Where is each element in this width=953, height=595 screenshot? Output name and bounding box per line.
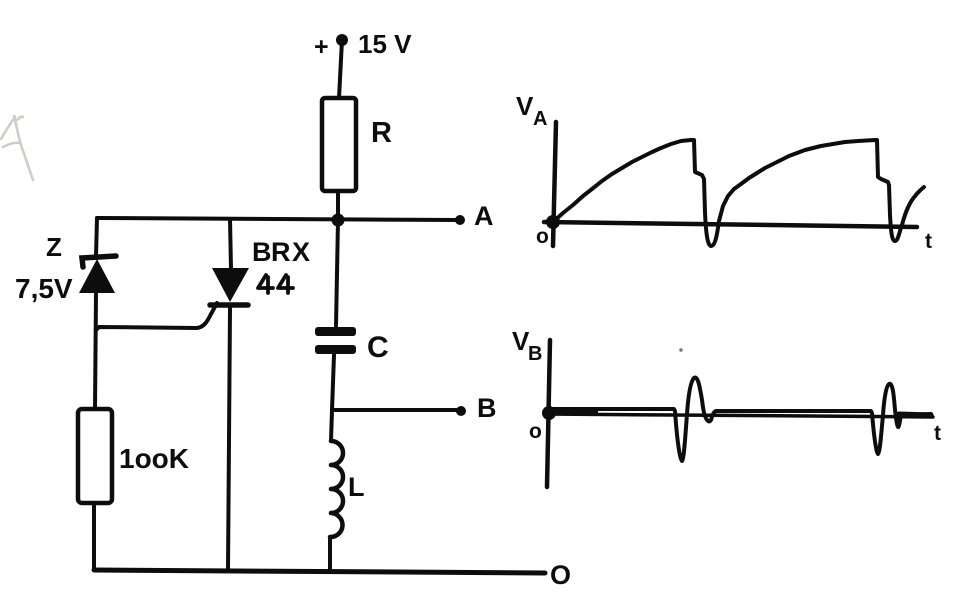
- svg-text:B: B: [252, 237, 272, 267]
- svg-text:7,5V: 7,5V: [15, 273, 73, 304]
- svg-text:X: X: [292, 237, 310, 267]
- svg-text:t: t: [934, 422, 941, 445]
- svg-text:B: B: [477, 393, 497, 423]
- svg-text:o: o: [529, 420, 542, 443]
- svg-text:R: R: [371, 117, 392, 149]
- svg-text:t: t: [925, 230, 932, 253]
- svg-text:B: B: [528, 343, 542, 365]
- svg-text:A: A: [474, 201, 494, 231]
- svg-text:o: o: [536, 225, 549, 248]
- svg-text:+: +: [314, 33, 329, 61]
- svg-text:R: R: [271, 237, 291, 267]
- svg-text:Z: Z: [46, 232, 62, 262]
- svg-text:1ooK: 1ooK: [119, 443, 189, 474]
- svg-text:O: O: [550, 560, 571, 590]
- svg-text:A: A: [533, 108, 547, 130]
- svg-text:C: C: [367, 331, 389, 364]
- svg-text:V: V: [516, 91, 534, 121]
- svg-text:15 V: 15 V: [358, 29, 412, 59]
- svg-text:L: L: [348, 472, 365, 502]
